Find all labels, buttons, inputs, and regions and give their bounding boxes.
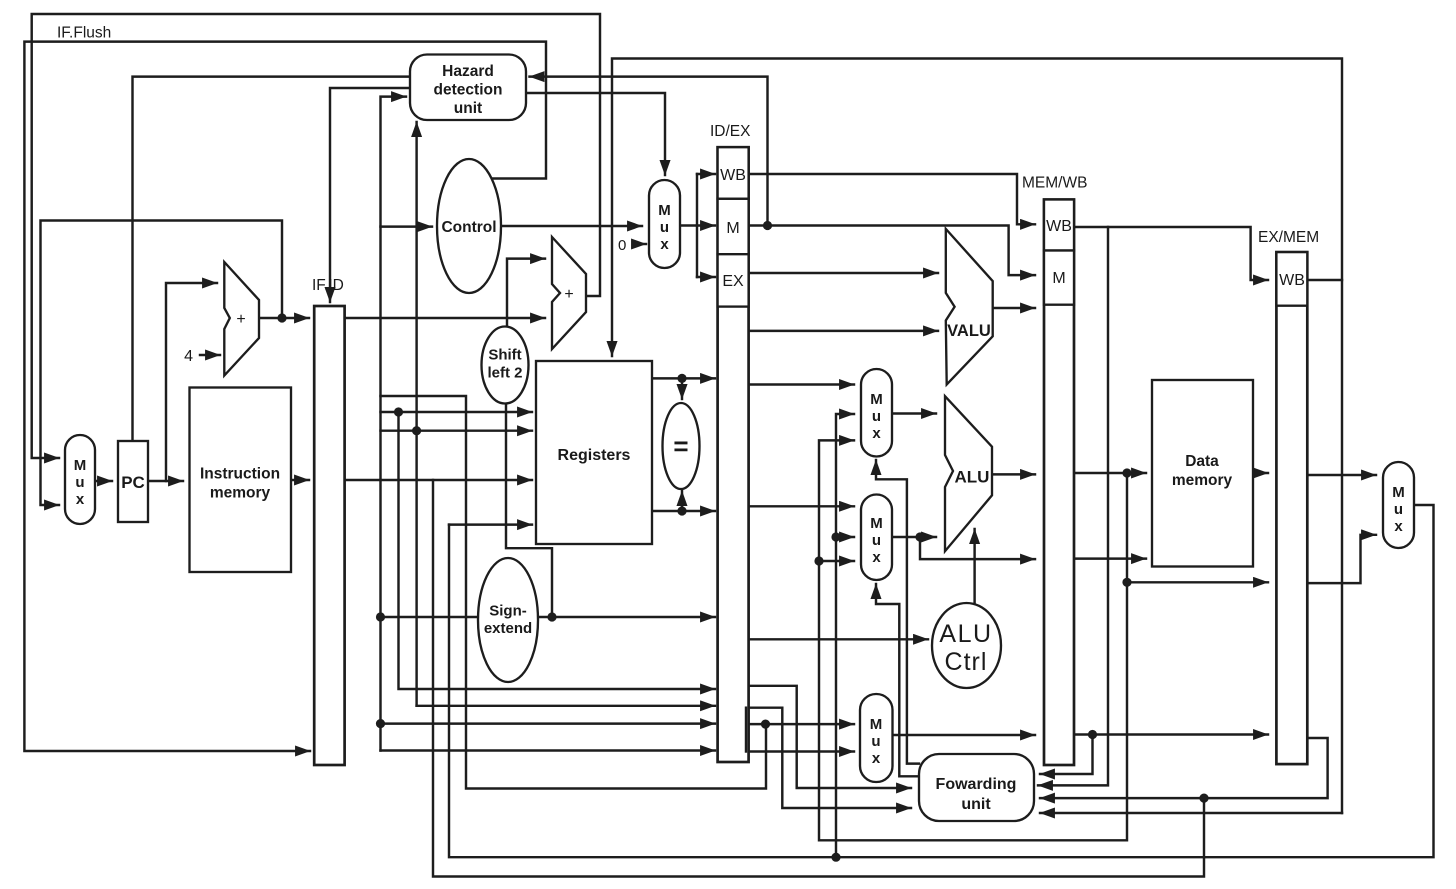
- mux M1 (PC source mux): [65, 435, 95, 524]
- wire RegWrite top run: [612, 59, 1342, 814]
- svg-text:EX/MEM: EX/MEM: [1258, 229, 1319, 246]
- register PC: [118, 441, 148, 522]
- wire forwarded EX/MEM branch to Mux4 input 3: [819, 560, 854, 562]
- svg-text:x: x: [1394, 518, 1403, 535]
- svg-text:MEM/WB: MEM/WB: [1022, 175, 1087, 192]
- svg-text:4: 4: [184, 348, 193, 365]
- svg-text:Data: Data: [1185, 453, 1219, 470]
- wire Control output to Mux2: [501, 225, 642, 227]
- wire bracket arrow into ID/EX M: [697, 224, 715, 226]
- svg-text:x: x: [660, 236, 669, 253]
- adder A1 (PC+4): [224, 262, 259, 376]
- node junction EXMEM-fwd-Mux4: [814, 556, 823, 565]
- wire Mux1 output to PC: [95, 480, 112, 482]
- wire PCWrite: hazard unit to PC top: [133, 77, 411, 441]
- node MEM/WB M box: [1044, 251, 1074, 305]
- wire Rt field row to Registers read reg 2: [381, 429, 533, 431]
- wire ID/EX Rs out stair to forwarding unit input 1: [749, 686, 911, 788]
- svg-text:M: M: [658, 202, 671, 219]
- svg-text:+: +: [236, 311, 245, 328]
- node junction alu-bypass: [1122, 578, 1131, 587]
- mux M5 (register destination mux): [860, 694, 893, 782]
- node junction read2-compare: [677, 506, 686, 515]
- wire register-dest branch down to forwarding unit: [1040, 735, 1093, 775]
- wire forwarded WB data branch to Mux4 input 2: [836, 536, 854, 538]
- wire PC+4 loop: adder output junction to PC mux input 2: [41, 221, 283, 506]
- wire ID/EX row to VALU input 2: [749, 330, 938, 332]
- svg-text:Sign-: Sign-: [489, 603, 527, 620]
- svg-text:memory: memory: [210, 485, 271, 502]
- mux M2 (control zero mux): [649, 180, 680, 268]
- svg-text:WB: WB: [1279, 272, 1305, 289]
- wire forwarded EX/MEM result vertical x819 to Mux3 input 3: [819, 440, 1127, 840]
- wire MEM/WB.WB branch down to forwarding unit: [1038, 227, 1108, 785]
- svg-text:x: x: [872, 425, 881, 442]
- wire hazard unit stall output to Mux2: [526, 93, 665, 175]
- svg-text:memory: memory: [1172, 472, 1233, 489]
- wire Rt/Rd top link row 396: [381, 396, 767, 789]
- wire Instruction memory output to IF.ID: [291, 479, 309, 481]
- node junction ID/EX.MemRead: [763, 221, 772, 230]
- wire PC output tap up to adder input 1: [166, 283, 217, 481]
- block Shift left 2: [482, 327, 529, 404]
- mux M6 (write-back mux): [1383, 462, 1414, 548]
- node junction Rt-branch: [412, 426, 421, 435]
- svg-text:unit: unit: [961, 796, 991, 813]
- wire ALU-result bypass row to EX/MEM: [1127, 581, 1268, 583]
- wire read data 1 branch to equality comparator: [681, 378, 683, 399]
- wire branch-target: branch adder output to PC mux input 1: [32, 14, 600, 458]
- mux M3 (ALU operand A forwarding mux): [861, 369, 892, 457]
- register EX/MEM: [1276, 252, 1307, 764]
- block Instruction memory: [190, 388, 292, 573]
- wire instruction row into ID/EX (row 723.6): [381, 722, 716, 724]
- wire IF.Flush: Control top to IF.ID flush input: [24, 42, 546, 751]
- wire ID/EX funct row to ALU Ctrl: [749, 638, 928, 640]
- svg-text:M: M: [870, 515, 883, 532]
- wire MEM/WB WB control to EX/MEM WB: [1074, 227, 1268, 280]
- wire ALU output into MEM/WB: [992, 473, 1035, 475]
- svg-text:x: x: [872, 750, 881, 767]
- wire opcode to Control: [381, 225, 433, 227]
- svg-text:ID/EX: ID/EX: [710, 123, 751, 140]
- wire sign-extend output row into ID/EX: [535, 616, 715, 618]
- wire sign-extend output branch up to shift-left-2: [506, 403, 552, 617]
- svg-text:+: +: [564, 286, 573, 303]
- svg-text:unit: unit: [454, 100, 482, 117]
- wire immediate row to sign-extend: [381, 616, 477, 618]
- svg-text:u: u: [872, 408, 881, 425]
- op-amp VALU (branch compare ALU): [946, 229, 993, 385]
- node junction memwb-alu-result: [1122, 468, 1131, 477]
- svg-text:detection: detection: [434, 82, 503, 99]
- wire instruction bottom row into ID/EX (row 750.5): [381, 749, 716, 751]
- wire ID/EX read2 out to Mux4: [749, 505, 854, 507]
- node junction sign-extend-output: [547, 612, 556, 621]
- mux M4 (ALU operand B forwarding mux): [861, 495, 892, 581]
- wire Mux5 output into MEM/WB: [893, 734, 1036, 736]
- svg-text:M: M: [1052, 270, 1065, 287]
- wire IF.ID PC+4 out to branch adder input 2: [345, 317, 545, 319]
- node ID/EX WB box: [718, 147, 749, 199]
- adder A2 (branch target adder): [552, 237, 586, 349]
- wire Rt down-leg into ID/EX: [417, 705, 715, 707]
- wire write-back loop: Mux6 output down and across bottom: [449, 505, 1434, 857]
- wire Registers read data 1 to ID/EX: [652, 377, 715, 379]
- svg-text:u: u: [660, 219, 669, 236]
- wire shift-left-2 output up to branch adder input 1: [507, 259, 545, 327]
- register ID/EX: [718, 147, 749, 762]
- svg-text:M: M: [870, 716, 883, 733]
- svg-text:WB: WB: [720, 167, 746, 184]
- wire ID/EX internal jog to Mux5 input 2: [745, 708, 747, 752]
- node junction WB-data-Mux4: [831, 853, 840, 862]
- node ID/EX M box: [718, 199, 749, 254]
- wire EX/MEM ALU-result to Mux6 input 2: [1307, 535, 1376, 583]
- wire EX/MEM out to Mux6 input 1: [1307, 474, 1376, 476]
- svg-text:Registers: Registers: [558, 447, 631, 464]
- wire constant 4 into adder: [200, 354, 220, 356]
- svg-text:M: M: [870, 391, 883, 408]
- svg-text:u: u: [1394, 501, 1403, 518]
- wire IF.ID-write: hazard unit to IF.ID top: [330, 88, 410, 302]
- svg-text:x: x: [872, 549, 881, 566]
- wire Rs field row to Registers read reg 1: [381, 411, 533, 413]
- svg-text:=: =: [673, 431, 688, 461]
- svg-text:Hazard: Hazard: [442, 63, 494, 80]
- wire control bracket vertical: [696, 174, 698, 277]
- svg-text:IF.Flush: IF.Flush: [57, 25, 111, 42]
- wire read data 2 branch to equality comparator: [681, 491, 683, 511]
- wire instruction bus vertical (IF.ID.reg fields) with top arrow into hazard unit: [381, 97, 407, 751]
- svg-text:EX: EX: [722, 273, 744, 290]
- node junction rd-row-798: [1199, 794, 1208, 803]
- wire ID/EX Rt out stair to forwarding unit input 2: [749, 708, 911, 808]
- svg-text:u: u: [871, 733, 880, 750]
- svg-text:Fowarding: Fowarding: [936, 776, 1017, 793]
- svg-text:M: M: [726, 220, 739, 237]
- wire ForwardA select: forwarding unit to Mux3: [876, 460, 919, 764]
- svg-text:IF.ID: IF.ID: [312, 277, 344, 294]
- wire PC output to Instruction memory: [148, 480, 183, 482]
- wire Registers read data 2 to ID/EX: [652, 510, 715, 512]
- block Fowarding unit: [919, 754, 1034, 821]
- wire write-reg field down to bottom row 876: [433, 480, 1204, 877]
- op-amp ALU Ctrl: [932, 603, 1001, 688]
- block Sign-extend: [478, 558, 538, 682]
- svg-text:M: M: [74, 457, 87, 474]
- svg-text:u: u: [872, 532, 881, 549]
- wire ID/EX.MemRead up to hazard detection unit: [530, 77, 768, 226]
- wire ID/EX EX-stage row to VALU input 1: [749, 272, 938, 274]
- wire VALU output into MEM/WB: [993, 307, 1035, 309]
- wire WB control row ID/EX to MEM/WB: [749, 174, 1035, 224]
- wire adder1 output to IF.ID: [259, 317, 309, 319]
- block Registers: [536, 361, 652, 544]
- wire Data memory output to EX/MEM: [1253, 472, 1268, 474]
- wire Rt field vertical to hazard unit bottom and down to ID/EX: [415, 122, 417, 706]
- node junction read1-compare: [677, 374, 686, 383]
- svg-text:0: 0: [618, 237, 626, 254]
- wire Mux4 output branch down into MEM/WB (write data): [920, 537, 1035, 559]
- wire instruction row to Registers write register: [381, 479, 533, 481]
- wire bracket arrow into ID/EX EX: [697, 276, 715, 278]
- svg-text:ALU: ALU: [939, 620, 992, 648]
- svg-text:ALU: ALU: [955, 468, 990, 487]
- svg-text:Instruction: Instruction: [200, 466, 280, 483]
- node EX/MEM WB box: [1276, 252, 1307, 306]
- svg-text:x: x: [76, 491, 85, 508]
- wire instruction out of IF.ID: [345, 479, 381, 481]
- wire M control row ID/EX to MEM/WB: [749, 226, 1035, 276]
- node junction instruction-row-723: [376, 719, 385, 728]
- wire RegWrite spur into forwarding unit: [1040, 812, 1342, 814]
- svg-text:M: M: [1392, 484, 1405, 501]
- block Data memory: [1152, 380, 1253, 567]
- block Hazard detection unit: [410, 55, 526, 121]
- wire Mux3 output to ALU input 1: [892, 412, 936, 414]
- wire EX/MEM Rd loop to forwarding unit: [1040, 738, 1328, 798]
- wire ID/EX Rd row jog to Mux5 input 2: [746, 708, 854, 752]
- wire MEM/WB pass row to EX/MEM: [1074, 733, 1268, 735]
- wire ID/EX read1 out to Mux3: [749, 383, 854, 385]
- svg-text:Shift: Shift: [488, 347, 521, 364]
- svg-text:PC: PC: [121, 473, 145, 492]
- wire write-back data row to Registers write data: [449, 523, 532, 525]
- wire Mux4 output to ALU input 2: [892, 536, 936, 538]
- comparator = (branch equality): [663, 403, 700, 489]
- wire Mux2 output to ID/EX control bracket: [680, 224, 697, 226]
- register IF.ID: [314, 306, 344, 765]
- wire zero constant into Mux2: [633, 243, 646, 245]
- svg-text:WB: WB: [1046, 218, 1072, 235]
- node ID/EX EX box: [718, 254, 749, 306]
- svg-text:extend: extend: [484, 620, 532, 637]
- register MEM/WB: [1044, 200, 1074, 766]
- svg-text:u: u: [75, 474, 84, 491]
- node junction Mux5-in1: [761, 720, 770, 729]
- wire ALU Ctrl select up into ALU: [973, 529, 975, 603]
- node MEM/WB WB box: [1044, 200, 1074, 251]
- svg-text:VALU: VALU: [947, 322, 991, 340]
- op-amp Control (control unit ellipse): [437, 159, 501, 293]
- node junction adder1-output: [277, 313, 286, 322]
- op-amp ALU (main ALU): [945, 396, 992, 551]
- wire Rs branch down to ID/EX input: [399, 412, 716, 689]
- wire MEM/WB write-data row to Data memory: [1074, 557, 1146, 559]
- node junction WB-fwd-Mux4row: [831, 532, 840, 541]
- wire forwarded WB data vertical x836 to Mux3 input 2: [836, 414, 854, 857]
- node junction memwb-dest: [1088, 730, 1097, 739]
- wire MEM/WB ALU-result row to Data memory address: [1074, 472, 1146, 474]
- svg-text:Control: Control: [441, 219, 496, 236]
- wire bracket arrow into ID/EX WB: [697, 173, 715, 175]
- svg-text:Ctrl: Ctrl: [945, 648, 988, 676]
- node junction Mux4-out-branch: [915, 532, 924, 541]
- wire RegWrite chain: EX/MEM WB out along top to Registers: [1307, 279, 1342, 281]
- svg-text:left 2: left 2: [487, 365, 522, 382]
- wire ID/EX Rt row to Mux5 input 1: [749, 723, 854, 725]
- node junction immediate-row: [376, 612, 385, 621]
- node junction Rs-branch: [394, 407, 403, 416]
- wire ForwardB select: forwarding unit to Mux4: [876, 584, 919, 776]
